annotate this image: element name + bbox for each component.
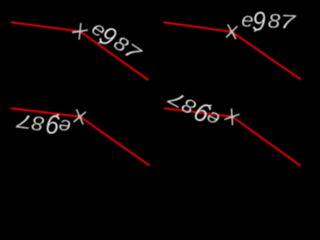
wire: red polyline bottom-right bbox=[164, 108, 300, 165]
node: x marker top-left bbox=[71, 22, 88, 40]
node: x marker top-right bbox=[226, 24, 237, 39]
wire: red polyline top-left bbox=[11, 22, 148, 80]
label e987 top-left bbox=[85, 14, 148, 70]
label e987 bottom-left bbox=[14, 105, 73, 142]
wire: red polyline top-right bbox=[163, 22, 300, 79]
label e987 top-right bbox=[241, 6, 298, 38]
wire: red polyline bottom-left bbox=[11, 108, 150, 165]
node: x marker bottom-left bbox=[73, 109, 86, 125]
node: x marker bottom-right bbox=[224, 108, 240, 126]
label e987 bottom-right bbox=[162, 81, 225, 134]
